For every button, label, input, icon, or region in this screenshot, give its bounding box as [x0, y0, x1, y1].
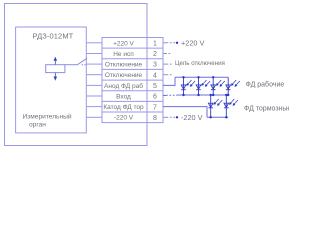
working photodiode VD3	[211, 77, 216, 95]
svg-text:8: 8	[153, 115, 157, 122]
cathode bottom bus	[207, 116, 228, 118]
pin numbers 1-8	[153, 41, 157, 122]
terminal block	[102, 38, 163, 123]
ladder wires rows 1-8 (box to terminal)	[86, 43, 102, 118]
pin 4 wire (отключение)	[163, 74, 172, 76]
relay contact	[65, 58, 87, 65]
coil up arrow	[54, 58, 56, 65]
svg-text:ФД тормозные: ФД тормозные	[244, 106, 289, 113]
working photodiode VD4	[226, 77, 231, 95]
svg-text:5: 5	[153, 83, 157, 90]
svg-text:Измерительный: Измерительный	[23, 113, 72, 121]
outer box	[5, 4, 148, 146]
svg-text:орган: орган	[29, 122, 46, 129]
svg-text:Не исп: Не исп	[113, 51, 134, 58]
svg-text:Вход: Вход	[116, 93, 131, 100]
svg-text:Катод ФД тор: Катод ФД тор	[103, 104, 144, 111]
svg-text:4: 4	[153, 72, 157, 79]
anode top bus	[175, 76, 228, 78]
svg-text:РДЗ-012МТ: РДЗ-012МТ	[33, 31, 74, 40]
svg-text:ФД рабочие: ФД рабочие	[246, 81, 285, 89]
pin 6 wire / middle bus	[163, 94, 228, 97]
pin 2 stub	[163, 53, 171, 55]
node dot +220	[176, 42, 178, 44]
terminal row labels	[103, 40, 144, 121]
pin 8 wire to -220 V	[163, 116, 176, 118]
svg-text:2: 2	[153, 51, 157, 58]
light arrows VD1	[187, 80, 195, 86]
svg-text:3: 3	[153, 62, 157, 69]
junction dots on middle bus	[182, 94, 229, 96]
pin 1 wire to +220 V	[163, 42, 176, 44]
svg-text:Анод ФД раб: Анод ФД раб	[104, 82, 143, 90]
working photodiode VD1	[181, 77, 186, 95]
svg-text:+220 V: +220 V	[181, 39, 204, 48]
light arrows VD6	[230, 99, 238, 105]
svg-text:Отключение: Отключение	[105, 62, 143, 69]
light arrows VD4	[231, 80, 239, 86]
svg-text:7: 7	[153, 104, 157, 111]
pin 5 wire to anode bus	[163, 77, 175, 85]
svg-text:-220 V: -220 V	[181, 113, 203, 122]
svg-text:+220 V: +220 V	[113, 40, 134, 47]
braking photodiode VD5	[208, 95, 213, 117]
svg-text:-220 V: -220 V	[114, 115, 134, 122]
junction dots on bottom bus	[210, 116, 228, 118]
working photodiode VD2	[196, 77, 201, 95]
pin 3 wire (отключение)	[163, 63, 172, 65]
braking photodiode VD6	[224, 95, 229, 117]
coil down arrow	[54, 73, 56, 80]
inner box (measuring organ)	[16, 27, 87, 133]
light arrows VD5	[214, 99, 222, 105]
svg-text:1: 1	[153, 41, 157, 48]
junction dots on top bus	[182, 76, 214, 78]
svg-text:Цепь отключения: Цепь отключения	[175, 60, 225, 67]
node dot -220	[176, 116, 178, 118]
light arrows VD2	[202, 80, 210, 86]
svg-text:6: 6	[153, 94, 157, 101]
pin 7 wire to cathode bus	[163, 107, 207, 118]
relay coil	[46, 65, 65, 73]
light arrows VD3	[216, 80, 224, 86]
svg-text:Отключение: Отключение	[105, 72, 143, 79]
